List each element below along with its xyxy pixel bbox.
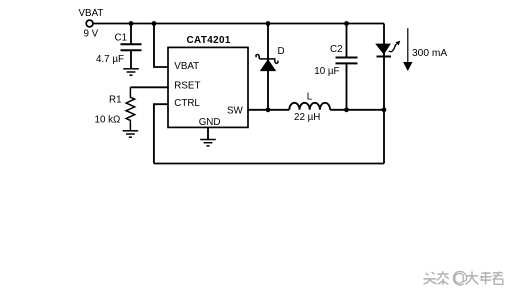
wire RSET	[130, 86, 168, 88]
wire VBAT pin	[154, 24, 168, 68]
svg-text:D: D	[278, 46, 285, 57]
wire SW	[248, 109, 289, 111]
ground (IC GND)	[200, 140, 216, 146]
node junction top rail / VBAT pin	[152, 21, 157, 26]
wire top rail	[93, 23, 384, 25]
svg-text:SW: SW	[227, 106, 244, 117]
svg-text:9 V: 9 V	[84, 28, 99, 39]
wire diode branch	[267, 24, 269, 110]
svg-text:C1: C1	[115, 32, 128, 43]
svg-text:R1: R1	[109, 94, 122, 105]
svg-text:VBAT: VBAT	[79, 8, 104, 19]
svg-text:C2: C2	[330, 44, 343, 55]
svg-text:10 kΩ: 10 kΩ	[95, 115, 121, 126]
wire C1 branch	[130, 24, 132, 45]
node junction diode / SW line	[266, 107, 271, 112]
wire LED column	[383, 24, 385, 164]
node junction top rail / C2	[344, 21, 349, 26]
wire C2 upper branch	[346, 24, 348, 58]
svg-text:CAT4201: CAT4201	[187, 35, 231, 46]
wire bottom rail	[154, 163, 384, 165]
diode D (Schottky)	[256, 54, 278, 70]
wire C2 lower branch	[346, 63, 348, 109]
node junction SW line / LED column	[382, 107, 387, 112]
resistor R1	[126, 87, 135, 130]
svg-text:22 µH: 22 µH	[294, 112, 320, 123]
svg-text:10 µF: 10 µF	[314, 66, 339, 77]
node junction top rail / C1	[129, 21, 134, 26]
wire L to LED column	[330, 109, 384, 111]
watermark 头条@大年君	[424, 271, 503, 285]
wire GND pin	[207, 127, 209, 139]
wire CTRL	[154, 104, 168, 163]
node junction top rail / diode D	[266, 21, 271, 26]
capacitor C1	[121, 44, 142, 50]
current arrow 300 mA	[403, 28, 412, 71]
svg-text:GND: GND	[199, 117, 221, 128]
svg-text:CTRL: CTRL	[174, 98, 200, 109]
capacitor C2	[336, 58, 358, 64]
node junction C2 / SW line	[344, 107, 349, 112]
svg-text:4.7 µF: 4.7 µF	[96, 54, 124, 65]
terminal VBAT	[86, 20, 93, 27]
svg-text:300 mA: 300 mA	[412, 48, 447, 59]
svg-text:RSET: RSET	[174, 81, 200, 92]
ground (C1)	[123, 69, 139, 75]
svg-text:L: L	[307, 91, 313, 102]
svg-text:VBAT: VBAT	[174, 61, 199, 72]
LED	[376, 44, 391, 56]
IC U1 CAT4201	[168, 47, 248, 127]
inductor L	[289, 103, 330, 110]
ground (R1)	[123, 131, 139, 137]
LED emission arrow	[389, 41, 401, 52]
wire C1 to ground	[130, 50, 132, 68]
